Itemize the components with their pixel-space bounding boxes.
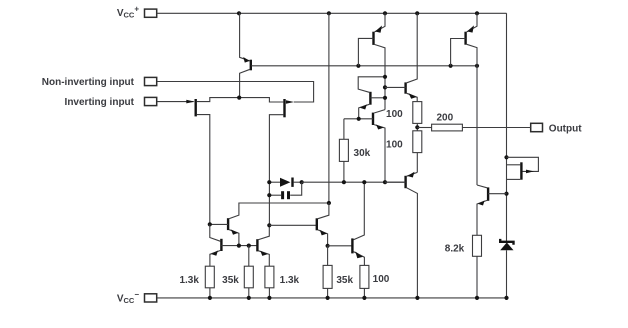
capacitor C1 [269, 182, 301, 199]
transistor Q1 (PNP current source, top left) [239, 13, 251, 97]
transistor Q3 (PNP, upper right) [451, 13, 477, 66]
node bottom rail x249 [247, 296, 251, 300]
node bottom rail x328 [326, 296, 330, 300]
resistor R5 100 [360, 265, 390, 298]
node top rail x417 [415, 11, 419, 15]
diode D2 (Schottky, output clamp) [500, 239, 513, 298]
node Q7 emitter / base line [237, 244, 241, 248]
transistor QC (NPN, output top) [385, 13, 417, 101]
svg-text:35k: 35k [336, 275, 353, 286]
node x385 y87.4 [383, 85, 387, 89]
terminal Vcc- [117, 290, 157, 305]
resistor R9 200 [417, 113, 530, 131]
terminal Non-inverting input [42, 77, 157, 88]
node second stage x329 y203 [327, 201, 331, 205]
wire inverting input to J1 gate [157, 101, 194, 103]
svg-text:1.3k: 1.3k [179, 275, 199, 286]
input transistor J2 (right) [239, 98, 294, 226]
wire compensation node line y182 [302, 181, 405, 183]
node x385 y97.8 [383, 96, 387, 100]
resistor R2 35k [222, 266, 253, 298]
svg-text:Inverting input: Inverting input [65, 97, 135, 108]
transistor QB (NPN, mid bottom right) [352, 182, 364, 265]
node top rail x477 [475, 11, 479, 15]
wire collector Q3 down right column x477 [476, 66, 478, 185]
node 30k bottom on y182 [342, 180, 346, 184]
resistor R3 1.3k [265, 266, 300, 298]
resistor R1 1.3k [179, 266, 214, 298]
node diode anode / J2 drain column [267, 180, 271, 184]
transistor QE (diode-connected, near output) [507, 157, 539, 179]
svg-text:Output: Output [549, 124, 582, 135]
svg-text:100: 100 [386, 140, 403, 151]
resistor R4 35k [323, 265, 353, 298]
wire Vcc+ top rail [157, 12, 507, 14]
node x506.5 y193.7 [504, 192, 508, 196]
transistor Q2 (PNP, upper middle) [358, 13, 385, 109]
svg-text:1.3k: 1.3k [280, 275, 300, 286]
resistor R10 8.2k [445, 235, 482, 298]
node base rail x358 [356, 64, 360, 68]
wire QB base line [328, 245, 352, 247]
node J2 drain / Q9 collector [267, 223, 271, 227]
node Q5 emitter / Q6 base [357, 117, 361, 121]
terminal Vcc+ [117, 5, 157, 20]
node input tail x239 [237, 96, 241, 100]
transistor Q7 (NPN, second stage left) [210, 203, 329, 246]
node bottom rail x210 [208, 296, 212, 300]
wire base rail of PNP mirror y=65.8 [251, 65, 477, 67]
svg-text:100: 100 [373, 274, 390, 285]
wire long vertical x329 from top rail [328, 13, 330, 203]
terminal Inverting input [65, 97, 157, 108]
node bottom rail x364 [362, 296, 366, 300]
wire non-inverting input to J2 gate [157, 82, 314, 103]
transistor QF (NPN, output pulldown) [477, 185, 507, 235]
svg-text:100: 100 [386, 109, 403, 120]
node x506.5 y157.3 [504, 155, 508, 159]
node base rail end x477 [475, 64, 479, 68]
node QA emitter / QB base [326, 244, 330, 248]
node cap left [267, 193, 271, 197]
resistor R7 100 [386, 102, 422, 131]
node Q7 base / Q8 collector [208, 222, 212, 226]
transistor Q9 (NPN, bottom left-mid) [257, 225, 269, 266]
terminal Output [531, 123, 583, 134]
node bottom rail end x506.5 [504, 296, 508, 300]
transistor QA (NPN, mid bottom) [317, 203, 329, 246]
svg-text:35k: 35k [222, 275, 239, 286]
node top rail x385 [383, 11, 387, 15]
wire down to 35k#2 [327, 246, 329, 266]
svg-text:8.2k: 8.2k [445, 244, 465, 255]
node Q6 emitter on y182 [383, 180, 387, 184]
node diode cathode [300, 180, 304, 184]
svg-text:200: 200 [436, 113, 453, 124]
input transistor J1 (left) [186, 98, 239, 225]
node bottom rail x269 [267, 296, 271, 300]
wire Vcc- bottom rail [157, 297, 507, 299]
transistor Q8 (NPN, bottom left) [210, 224, 257, 266]
resistor R6 30k [339, 119, 370, 182]
diode D1 [269, 178, 301, 187]
node base rail x451 [449, 64, 453, 68]
transistor Q6 (NPN darlington lower) [344, 110, 385, 183]
svg-text:Non-inverting input: Non-inverting input [42, 77, 135, 88]
wire right rail end down x506.5 [506, 13, 508, 241]
node bottom rail x417 [415, 296, 419, 300]
node x385 y76.8 [383, 75, 387, 79]
node output tap x417 [415, 125, 419, 129]
transistor QD (PNP, output sink) [385, 172, 417, 298]
transistor Q5 (NPN darlington upper) [358, 77, 385, 119]
node bottom rail x477 [475, 296, 479, 300]
wire 35k tap down [248, 246, 250, 267]
resistor R8 100 [386, 131, 422, 173]
wire Q9/QA base link y225 [269, 224, 316, 226]
node QB collector on y182 line [362, 180, 366, 184]
svg-text:30k: 30k [354, 148, 371, 159]
node top rail x329 [327, 11, 331, 15]
node top rail x239 [237, 11, 241, 15]
node 35k tap [247, 244, 251, 248]
